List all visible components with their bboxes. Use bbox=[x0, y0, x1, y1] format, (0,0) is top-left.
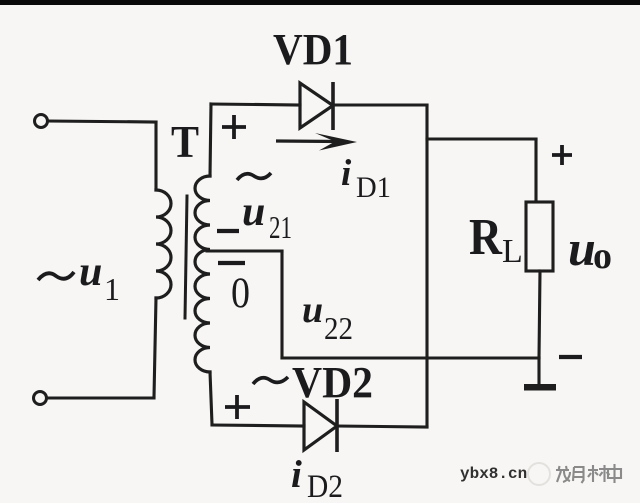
ground stem bbox=[537, 358, 540, 385]
svg-text:21: 21 bbox=[269, 209, 292, 245]
wire center tap vertical bbox=[280, 251, 283, 358]
plus sign (u21 top) bbox=[222, 115, 246, 139]
svg-text:u: u bbox=[302, 289, 323, 331]
wire load bottom lead bbox=[539, 271, 540, 358]
svg-text:R: R bbox=[469, 209, 503, 266]
svg-text:u: u bbox=[242, 189, 265, 235]
wire secondary bottom lead bbox=[210, 372, 212, 424]
plus sign (output) bbox=[552, 145, 572, 165]
svg-text:o: o bbox=[593, 235, 612, 277]
wire center tap to ground node bbox=[282, 356, 539, 359]
minus sign (u21 bottom) bbox=[217, 229, 239, 233]
wire primary top vertical bbox=[154, 122, 157, 190]
tilde (u21) bbox=[237, 173, 271, 180]
wire branch to load bbox=[427, 137, 536, 140]
svg-text:i: i bbox=[341, 153, 352, 194]
svg-text:D1: D1 bbox=[356, 171, 391, 204]
svg-text:ybx8.cn: ybx8.cn bbox=[460, 465, 527, 483]
watermark logo circle bbox=[528, 463, 550, 485]
svg-text:0: 0 bbox=[231, 270, 250, 317]
diode VD1 bbox=[300, 82, 333, 130]
svg-text:VD1: VD1 bbox=[273, 25, 353, 74]
svg-text:u: u bbox=[568, 220, 596, 276]
svg-text:VD2: VD2 bbox=[292, 358, 373, 407]
svg-text:1: 1 bbox=[104, 271, 120, 307]
transformer core bbox=[185, 196, 187, 318]
tilde (u22 / VD2) bbox=[253, 377, 288, 384]
top black bar bbox=[0, 0, 640, 5]
wire primary bottom vertical bbox=[154, 298, 156, 397]
wire center tap horizontal bbox=[207, 249, 282, 252]
primary winding of transformer T bbox=[156, 190, 171, 298]
terminal (top-left input) bbox=[35, 115, 48, 128]
minus sign (output) bbox=[559, 355, 582, 359]
wire secondary top lead bbox=[210, 104, 211, 176]
diode VD2 bbox=[304, 399, 337, 452]
svg-text:T: T bbox=[171, 116, 199, 167]
wire input bottom horizontal bbox=[47, 396, 154, 399]
tilde (u1) bbox=[38, 272, 74, 280]
svg-text:22: 22 bbox=[324, 310, 353, 346]
watermark hanzi bbox=[556, 464, 621, 483]
resistor R_L bbox=[526, 202, 553, 271]
wire VD1 cathode to right rail bbox=[333, 103, 427, 106]
plus sign (u22 bottom) bbox=[225, 395, 250, 419]
secondary winding (center-tapped) bbox=[195, 176, 210, 372]
ground symbol bar bbox=[524, 384, 556, 391]
wire secondary bottom to VD2 anode bbox=[212, 425, 304, 426]
wire secondary top to VD1 anode bbox=[211, 104, 300, 105]
current arrow i_D1 bbox=[276, 133, 357, 151]
svg-text:i: i bbox=[291, 453, 302, 496]
wire right rail vertical bbox=[425, 105, 428, 427]
wire VD2 cathode to right rail bbox=[337, 426, 427, 427]
svg-text:D2: D2 bbox=[307, 469, 343, 503]
wire load top lead bbox=[534, 139, 537, 202]
svg-text:L: L bbox=[502, 233, 523, 270]
svg-text:u: u bbox=[79, 249, 102, 295]
wire input top horizontal bbox=[48, 121, 156, 122]
terminal (bottom-left input) bbox=[34, 392, 47, 405]
minus sign (u22 top) bbox=[218, 261, 245, 265]
